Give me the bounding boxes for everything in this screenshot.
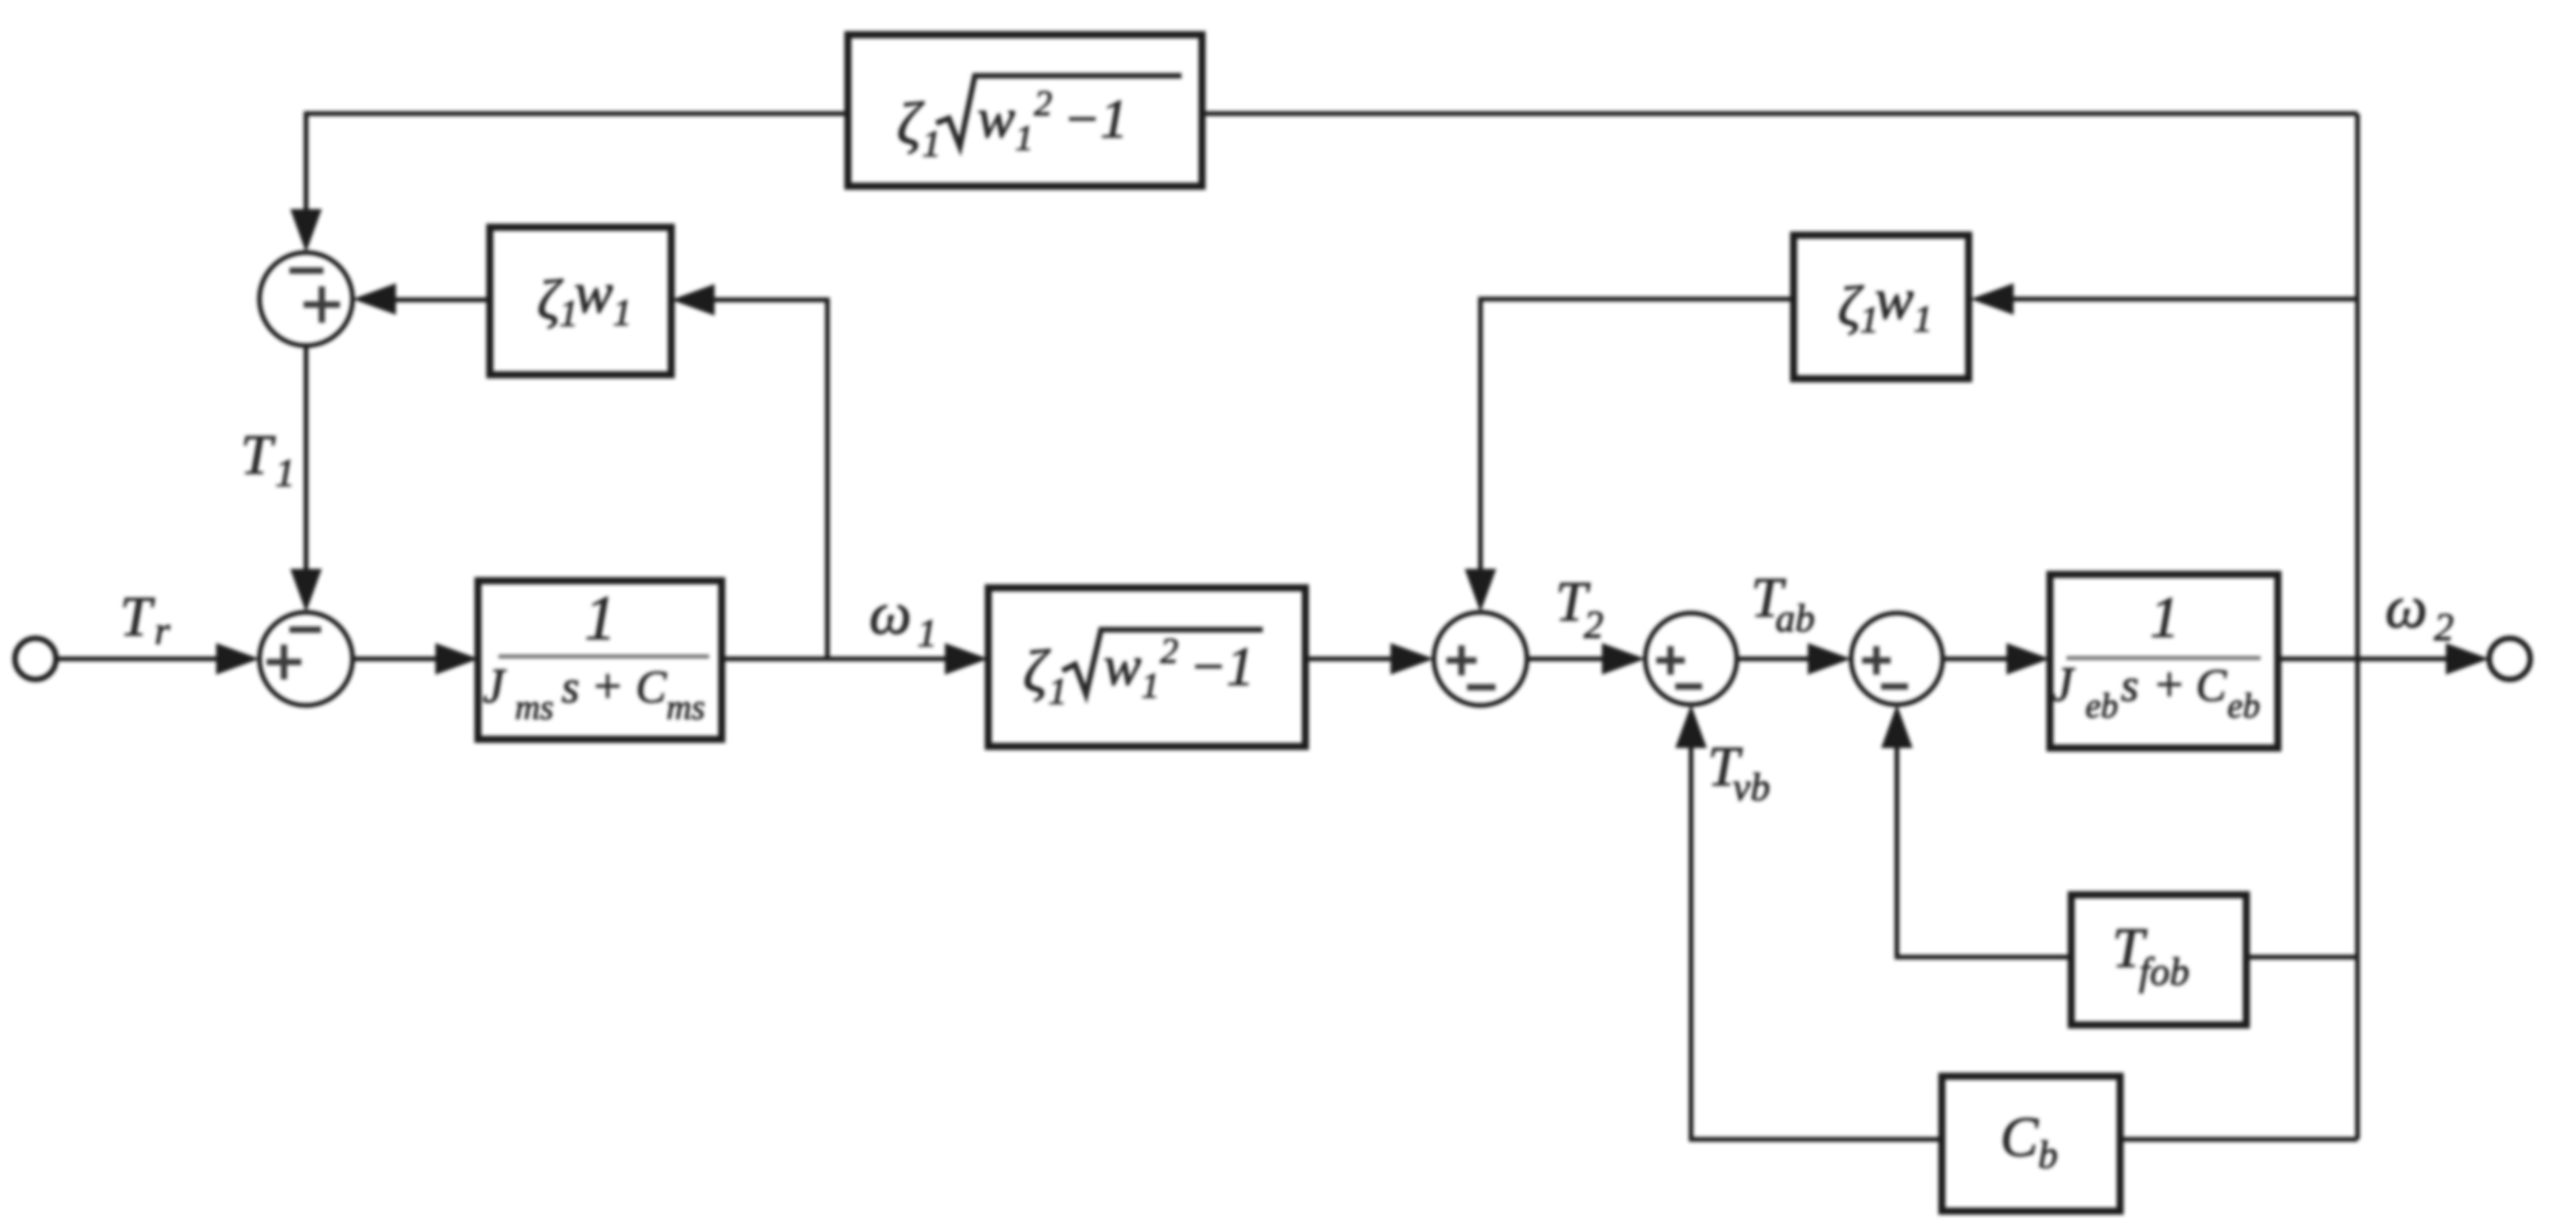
svg-text:b: b [2038,1132,2058,1176]
svg-text:T: T [120,585,155,648]
svg-text:ab: ab [1775,596,1815,640]
svg-text:+: + [591,660,624,713]
svg-text:eb: eb [2227,686,2261,725]
svg-text:ms: ms [515,688,554,727]
svg-text:s: s [2121,660,2139,711]
svg-text:C: C [636,661,667,712]
svg-text:J: J [483,660,506,713]
svg-text:ω: ω [2385,574,2428,641]
svg-text:C: C [2196,660,2227,711]
svg-text:J: J [2051,658,2075,712]
svg-text:vb: vb [1733,765,1770,809]
svg-text:1: 1 [917,611,937,655]
svg-text:T: T [241,423,276,486]
svg-text:1: 1 [584,584,616,653]
svg-text:2: 2 [2434,604,2454,649]
svg-text:1: 1 [275,451,295,495]
svg-text:2: 2 [1584,602,1603,646]
svg-text:fob: fob [2139,949,2190,993]
svg-text:C: C [2000,1105,2039,1169]
svg-text:1: 1 [2150,585,2179,650]
svg-text:r: r [155,608,170,653]
svg-text:ω: ω [869,581,912,647]
svg-text:s: s [562,661,580,712]
svg-text:eb: eb [2085,686,2119,725]
svg-text:ms: ms [666,688,705,727]
svg-text:+: + [2152,658,2186,712]
